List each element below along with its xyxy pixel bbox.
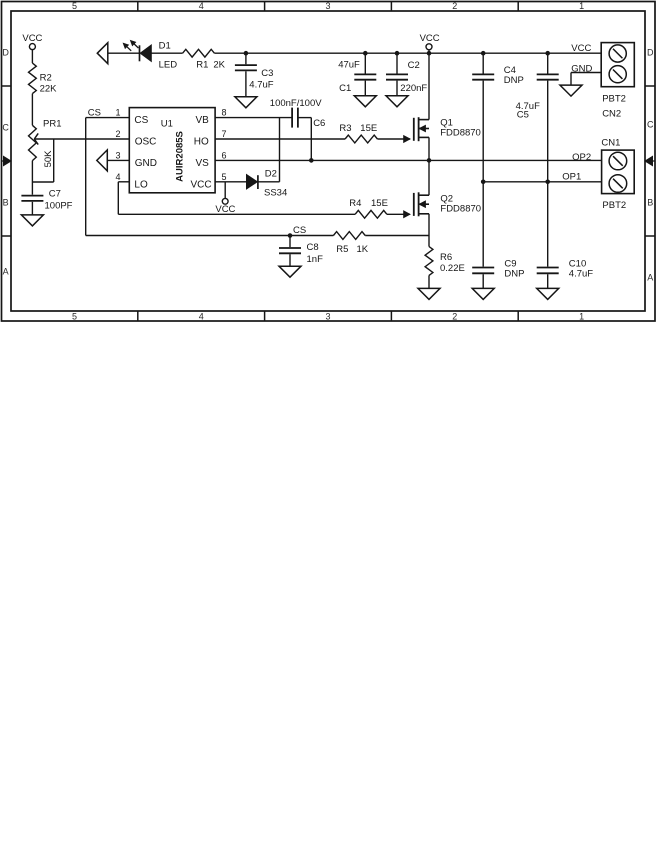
wire U1 pin 1 stub [86,117,130,119]
svg-text:VCC: VCC [190,179,211,190]
wire rail to C4 [482,53,484,73]
wire Q2 source to R6 node [428,214,430,247]
svg-text:1: 1 [115,108,120,118]
ground at CN2 [560,85,582,96]
svg-text:VS: VS [195,158,209,169]
svg-text:GND: GND [571,63,592,74]
wire U1 pin 5 to D2 [215,181,246,183]
svg-text:VB: VB [195,115,209,126]
svg-text:A: A [647,273,653,283]
svg-text:C8: C8 [307,242,319,253]
op-amp U1 AUIR2085S body [129,108,215,193]
svg-text:R1: R1 [196,60,208,71]
svg-text:3: 3 [115,150,120,160]
capacitor C2 [386,73,408,75]
wire C1 to ground [364,81,366,96]
svg-text:C5: C5 [517,110,529,121]
capacitor C10 [537,267,559,269]
wire CS vertical [85,118,87,236]
svg-text:4.7uF: 4.7uF [249,79,273,90]
wire OP1 [483,181,601,183]
svg-text:C6: C6 [313,118,325,129]
ground below C1 [354,96,376,107]
PR1 wiper arrow [34,133,38,139]
capacitor C5 [537,73,559,75]
wire Q2 drain to OP2 [428,160,430,195]
svg-text:4.7uF: 4.7uF [569,268,593,279]
svg-text:FDD8870: FDD8870 [440,127,481,138]
wire C2 to ground [396,81,398,96]
svg-text:C: C [647,120,654,130]
svg-text:2K: 2K [213,60,225,71]
capacitor C7 [21,195,43,197]
junction C4 [481,51,486,56]
wire Q1 drain to rail [428,53,430,119]
svg-text:4: 4 [199,312,204,322]
junction C2 [395,51,400,56]
svg-text:A: A [3,267,9,277]
wire rail to C2 [396,53,398,73]
wire C3 to ground [245,71,247,97]
resistor R1 [183,49,215,57]
border frame outer [2,2,656,322]
svg-text:4: 4 [199,1,204,11]
svg-text:CS: CS [88,108,101,119]
wire C10 to ground [547,274,549,288]
svg-text:VCC: VCC [420,33,440,44]
svg-text:C: C [2,123,9,133]
LED D1 [139,45,141,61]
svg-text:CN1: CN1 [601,137,620,148]
wire rail to C5 [547,53,549,73]
junction C1 [363,51,368,56]
port GND at U1 pin 3 [97,150,108,171]
svg-text:U1: U1 [161,119,173,130]
wire PR1 wiper to U1 pin 2 [34,138,129,140]
right edge center arrow [652,160,655,162]
svg-text:C2: C2 [408,60,420,71]
wire rail to C1 [364,53,366,73]
svg-text:100PF: 100PF [45,200,73,211]
wire R5 to Q2 source node [365,235,429,237]
svg-text:5: 5 [222,172,227,182]
junction C6/VS [309,158,314,163]
svg-text:PBT2: PBT2 [602,200,626,211]
svg-text:C3: C3 [261,68,273,79]
svg-text:R4: R4 [349,198,361,209]
wire CS horizontal to R5 [86,235,334,237]
wire PR1 bottom to C7 [31,161,33,195]
wire rail to C3 [245,53,247,64]
connector CN2 PBT2 [601,43,634,87]
svg-text:D: D [647,48,654,58]
svg-text:1: 1 [579,312,584,322]
wire VCC to R2 [31,50,33,63]
junction C4/OP1 [481,180,486,185]
svg-text:1nF: 1nF [307,254,324,265]
svg-text:VCC: VCC [22,33,42,44]
svg-text:7: 7 [222,129,227,139]
svg-text:CS: CS [134,115,148,126]
svg-text:22K: 22K [40,83,58,94]
wire C6 to VS vertical [298,117,311,119]
wire R2 to PR1 [31,94,33,126]
svg-text:LED: LED [159,60,178,71]
ground below C8 [279,266,301,277]
capacitor C8 [289,236,291,248]
svg-text:C1: C1 [339,83,351,94]
svg-text:3: 3 [325,312,330,322]
svg-text:OP2: OP2 [572,152,591,163]
svg-text:220nF: 220nF [400,83,427,94]
wire U1 pin 8 VB [215,117,292,119]
capacitor C4 [472,73,494,75]
svg-text:8: 8 [222,108,227,118]
wire C8 to ground [289,254,291,266]
svg-text:VCC: VCC [571,43,591,54]
wire R3 to Q1 gate [377,138,410,140]
svg-text:47uF: 47uF [338,59,360,70]
wire U1 pin 4 LO [118,181,129,183]
svg-text:HO: HO [194,137,209,148]
svg-text:C7: C7 [49,188,61,199]
wire R4 to Q2 gate [387,213,410,215]
svg-text:R2: R2 [40,72,52,83]
svg-text:VCC: VCC [215,204,235,215]
wire OP1 node to C9 [482,182,484,267]
svg-text:R5: R5 [336,244,348,255]
svg-text:LO: LO [134,179,148,190]
ground below C3 [235,97,257,108]
svg-text:DNP: DNP [504,75,524,86]
resistor R3 [345,135,377,143]
svg-text:0.22E: 0.22E [440,263,465,274]
svg-text:2: 2 [115,129,120,139]
svg-text:FDD8870: FDD8870 [440,204,481,215]
wire C7 to ground [31,202,33,215]
connector CN1 PBT2 [602,150,635,194]
svg-text:OSC: OSC [135,137,157,148]
svg-text:PR1: PR1 [43,119,61,130]
svg-text:GND: GND [135,158,157,169]
wire C9 to ground [482,274,484,288]
svg-text:D: D [2,48,9,58]
capacitor C1 [354,73,376,75]
svg-text:1: 1 [579,1,584,11]
svg-text:1K: 1K [357,244,369,255]
wire Q1 source to OP2 [428,137,430,160]
svg-text:B: B [647,198,653,208]
svg-text:D1: D1 [159,41,171,52]
resistor R6 [425,247,433,276]
svg-text:CN2: CN2 [602,108,621,119]
junction C5 [545,51,550,56]
wire U1 pin 6 VS to OP2 [215,159,601,161]
wire VCC rail [246,52,601,54]
svg-text:OP1: OP1 [562,172,581,183]
border row ticks [2,85,12,87]
resistor R2 [29,63,37,94]
svg-text:15E: 15E [360,123,377,134]
wire R1 to VCC rail [214,52,246,54]
border frame inner [11,11,645,311]
wire U1 pin 7 HO [215,138,345,140]
svg-text:AUIR2085S: AUIR2085S [175,131,186,182]
wire port to LED [108,52,140,54]
potentiometer PR1 [29,125,37,160]
svg-text:SS34: SS34 [264,188,287,199]
svg-text:CS: CS [293,225,306,236]
svg-text:50K: 50K [43,150,54,168]
svg-text:2: 2 [452,1,457,11]
wire CN2 GND [571,72,601,74]
transistor Q2 FDD8870 [413,193,415,216]
svg-text:15E: 15E [371,198,388,209]
wire R6 to ground [428,275,430,288]
wire OP1 node to C10 [547,182,549,267]
LED emission arrows [127,47,131,51]
power flag VCC at U1 pin 5 [224,182,226,199]
svg-text:100nF/100V: 100nF/100V [270,98,322,109]
svg-text:5: 5 [72,312,77,322]
junction R1/C3 [244,51,249,56]
svg-text:DNP: DNP [504,268,524,279]
svg-text:5: 5 [72,1,77,11]
svg-text:R3: R3 [339,123,351,134]
resistor R4 [355,210,387,218]
wire D2 cathode to VB [258,181,280,183]
junction Q1 source / Q2 drain [427,158,432,163]
ground below R6 [418,288,440,299]
svg-text:D2: D2 [265,168,277,179]
wire C5 to OP1 node [547,81,549,182]
ground below C9 [472,288,494,299]
wire PR1 bottom terminal to wiper [32,181,53,183]
capacitor C3 [235,64,257,66]
left edge center arrow [2,160,5,162]
svg-text:4: 4 [115,172,120,182]
svg-text:B: B [3,198,9,208]
wire port to U1 pin 3 [107,159,129,161]
svg-text:PBT2: PBT2 [602,94,626,105]
ground below C10 [537,288,559,299]
transistor Q1 FDD8870 [413,118,415,141]
capacitor C6 [291,108,293,128]
svg-text:R6: R6 [440,252,452,263]
junction CS/C8 [288,233,293,238]
ground below C2 [386,96,408,107]
border column ticks [137,2,139,12]
svg-text:3: 3 [325,1,330,11]
diode D2 SS34 [247,175,258,189]
svg-text:6: 6 [222,150,227,160]
capacitor C9 [472,267,494,269]
svg-text:2: 2 [452,312,457,322]
resistor R5 [333,232,365,240]
junction C5/OP1 [545,180,550,185]
wire C4 to OP1 node [482,81,484,182]
wire LED to R1 [151,52,182,54]
junction VCC/Q1 drain [427,51,432,56]
ground below C7 [21,215,43,226]
port P1 LED return [97,43,108,64]
